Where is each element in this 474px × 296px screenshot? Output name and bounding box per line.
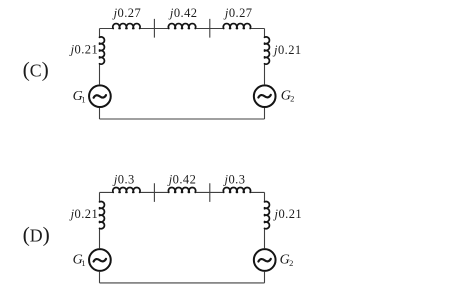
svg-text:j0.42: j0.42 — [168, 6, 198, 20]
svg-text:j0.21: j0.21 — [69, 43, 99, 57]
svg-text:1: 1 — [81, 258, 85, 268]
svg-text:j0.27: j0.27 — [223, 6, 253, 20]
svg-text:j0.21: j0.21 — [273, 207, 303, 221]
svg-text:j0.21: j0.21 — [272, 43, 302, 57]
svg-text:(C): (C) — [23, 58, 49, 82]
svg-text:j0.3: j0.3 — [223, 172, 246, 186]
svg-text:2: 2 — [290, 94, 294, 104]
svg-text:j0.3: j0.3 — [112, 172, 135, 186]
svg-text:2: 2 — [289, 258, 293, 268]
svg-text:1: 1 — [81, 94, 85, 104]
svg-text:j0.27: j0.27 — [112, 6, 142, 20]
svg-text:(D): (D) — [23, 223, 50, 247]
svg-text:j0.42: j0.42 — [167, 172, 197, 186]
svg-text:j0.21: j0.21 — [69, 207, 99, 221]
